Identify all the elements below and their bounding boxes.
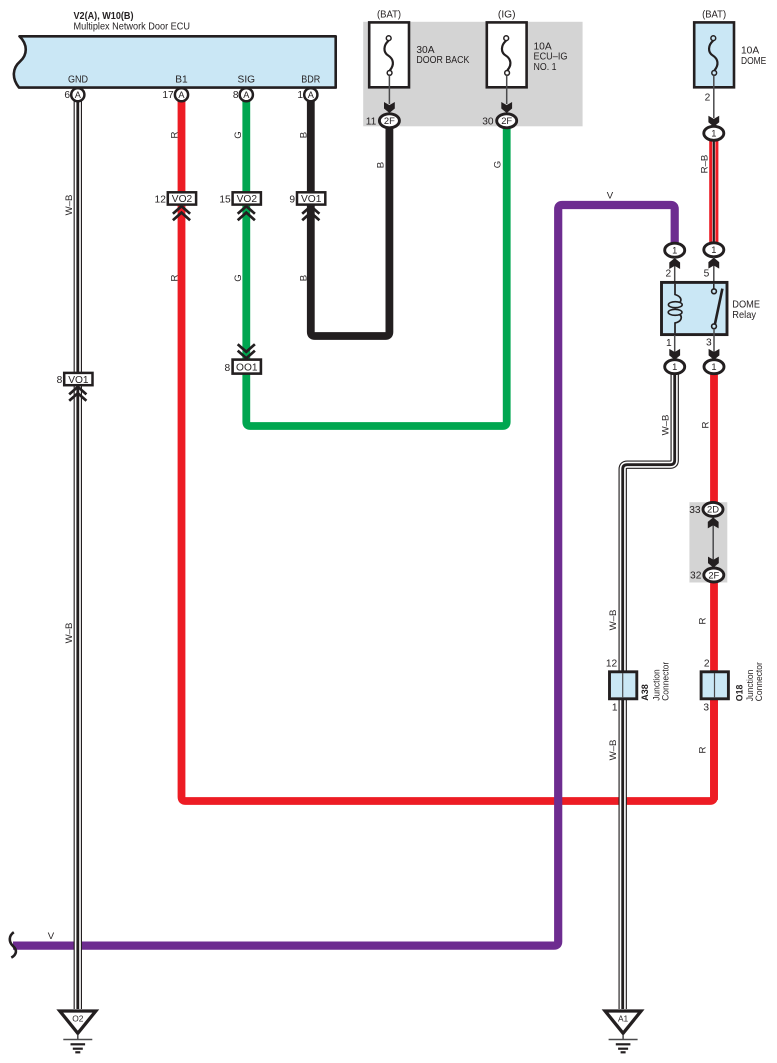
junction connector O18 box bbox=[701, 658, 728, 713]
svg-text:6: 6 bbox=[64, 90, 70, 101]
connector 1 ellipse above relay pin 2 (purple) bbox=[665, 243, 685, 257]
wire R relay pin 3 down through 2D/2F and O18 junction bbox=[710, 370, 718, 800]
wire break symbol at left end of V wire bbox=[10, 932, 16, 957]
svg-text:A: A bbox=[243, 90, 250, 100]
svg-text:11: 11 bbox=[366, 116, 377, 127]
svg-text:W–B: W–B bbox=[64, 195, 75, 216]
svg-text:DOME: DOME bbox=[741, 56, 766, 67]
svg-text:5: 5 bbox=[704, 268, 710, 279]
thin lead relay pin 1 with down arrow bbox=[666, 335, 680, 360]
svg-text:R–B: R–B bbox=[700, 155, 711, 174]
relay switch bbox=[712, 284, 723, 329]
svg-text:B: B bbox=[298, 275, 309, 281]
svg-text:W–B: W–B bbox=[608, 610, 619, 631]
svg-text:W–B: W–B bbox=[661, 415, 672, 436]
svg-text:G: G bbox=[233, 131, 244, 138]
connector 1 ellipse below dome fuse bbox=[704, 126, 724, 140]
connector 11 2F ellipse bbox=[366, 114, 400, 128]
svg-text:(BAT): (BAT) bbox=[702, 10, 726, 21]
svg-text:12: 12 bbox=[606, 658, 618, 669]
ECU pin 8 circle A bbox=[233, 88, 253, 101]
svg-text:1: 1 bbox=[297, 90, 303, 101]
svg-text:2: 2 bbox=[705, 93, 711, 104]
thin lead relay pin 5 with up arrow bbox=[704, 257, 720, 290]
svg-text:9: 9 bbox=[289, 194, 295, 205]
gray block around 2D 2F connectors bbox=[689, 502, 727, 582]
svg-text:1: 1 bbox=[711, 245, 716, 255]
wire G from ECU SIG pin 8 down, right, up to fuse ECU-IG connector 30 bbox=[246, 98, 506, 426]
connector 15 VO2 on G wire bbox=[219, 192, 261, 220]
svg-text:W–B: W–B bbox=[64, 623, 75, 644]
svg-text:8: 8 bbox=[57, 375, 63, 386]
svg-text:A: A bbox=[308, 90, 315, 100]
junction connector O18 rotated name bbox=[734, 661, 765, 701]
connector 8 OO1 on G wire bbox=[225, 344, 261, 374]
svg-text:O18: O18 bbox=[734, 684, 745, 701]
svg-text:W–B: W–B bbox=[608, 740, 619, 761]
ECU box Multiplex Network Door ECU bbox=[14, 36, 336, 87]
svg-text:1: 1 bbox=[666, 338, 672, 349]
svg-text:Relay: Relay bbox=[732, 310, 757, 321]
connector 30 2F ellipse bbox=[482, 114, 516, 128]
svg-text:G: G bbox=[233, 274, 244, 281]
connector 1 ellipse above relay pin 5 (R-B) bbox=[704, 243, 724, 257]
svg-text:2F: 2F bbox=[384, 115, 395, 126]
svg-text:V2(A), W10(B): V2(A), W10(B) bbox=[74, 11, 134, 22]
svg-text:(IG): (IG) bbox=[498, 10, 516, 21]
relay coil bbox=[668, 284, 682, 333]
ground O2 bbox=[60, 1011, 96, 1052]
svg-text:A38: A38 bbox=[640, 684, 651, 701]
DOME Relay box bbox=[662, 282, 728, 334]
wire R-B from dome fuse connector down to relay pin 5 connector bbox=[709, 137, 718, 246]
svg-text:GND: GND bbox=[68, 74, 88, 85]
wire W-B from relay pin 1 jogging left down to ground A1 bbox=[623, 370, 675, 1009]
svg-text:15: 15 bbox=[219, 194, 231, 205]
svg-text:17: 17 bbox=[162, 90, 174, 101]
fuse 10A DOME box bbox=[694, 22, 734, 87]
wire W-B from ECU GND pin 6 down to ground O2 bbox=[74, 98, 82, 1009]
svg-text:2: 2 bbox=[666, 269, 672, 280]
svg-text:1: 1 bbox=[612, 703, 618, 714]
connector 32 2F ellipse bbox=[690, 568, 724, 582]
svg-text:VO2: VO2 bbox=[237, 194, 258, 205]
svg-text:32: 32 bbox=[690, 571, 702, 582]
svg-text:OO1: OO1 bbox=[236, 363, 258, 374]
thin lead from fuse 30A to connector 2F bbox=[388, 75, 390, 104]
svg-text:NO. 1: NO. 1 bbox=[534, 62, 557, 73]
svg-text:R: R bbox=[170, 131, 181, 138]
ECU pin 17 circle A bbox=[162, 88, 188, 101]
connector 8 VO1 on W-B wire bbox=[57, 373, 93, 401]
svg-text:33: 33 bbox=[689, 505, 701, 516]
svg-text:(BAT): (BAT) bbox=[377, 10, 401, 21]
svg-text:VO1: VO1 bbox=[68, 375, 89, 386]
svg-text:3: 3 bbox=[706, 338, 712, 349]
svg-text:R: R bbox=[700, 421, 711, 428]
svg-text:1: 1 bbox=[672, 362, 677, 372]
connector 1 ellipse below relay pin 3 bbox=[704, 360, 724, 374]
wire V purple from left break to dome relay pin 2 bbox=[13, 205, 675, 946]
svg-text:1: 1 bbox=[711, 129, 716, 139]
svg-text:R: R bbox=[697, 746, 708, 753]
fuse 30A DOOR BACK box bbox=[369, 22, 409, 87]
svg-text:12: 12 bbox=[155, 194, 167, 205]
svg-text:2D: 2D bbox=[707, 504, 719, 515]
svg-text:VO1: VO1 bbox=[301, 194, 322, 205]
connector 9 VO1 on B wire bbox=[289, 192, 325, 220]
svg-text:O2: O2 bbox=[72, 1014, 84, 1024]
svg-text:B1: B1 bbox=[175, 74, 188, 85]
svg-text:A: A bbox=[75, 90, 82, 100]
svg-text:DOOR BACK: DOOR BACK bbox=[416, 55, 469, 66]
svg-text:VO2: VO2 bbox=[172, 194, 193, 205]
svg-text:Multiplex Network Door ECU: Multiplex Network Door ECU bbox=[74, 21, 191, 32]
svg-text:8: 8 bbox=[233, 90, 239, 101]
svg-text:A1: A1 bbox=[618, 1014, 629, 1024]
ECU pin 1 circle A bbox=[297, 88, 317, 101]
svg-text:SIG: SIG bbox=[238, 74, 256, 85]
svg-text:V: V bbox=[48, 931, 55, 942]
connector 12 VO2 on R wire bbox=[155, 192, 197, 220]
svg-text:2: 2 bbox=[704, 658, 710, 669]
connector 33 2D ellipse bbox=[689, 502, 723, 516]
junction connector A38 rotated name bbox=[640, 661, 671, 701]
wire B from ECU BDR pin 1 down, right, up to fuse DOOR BACK connector 11 bbox=[311, 98, 390, 336]
top gray fuse block background bbox=[363, 22, 582, 127]
svg-text:1: 1 bbox=[711, 362, 716, 372]
fuse 10A ECU-IG NO.1 box bbox=[487, 22, 527, 87]
thin lead from fuse 10A to connector 2F bbox=[506, 75, 508, 104]
junction connector A38 box bbox=[606, 658, 637, 713]
svg-text:Connector: Connector bbox=[660, 661, 671, 701]
svg-text:30: 30 bbox=[482, 116, 494, 127]
ground A1 bbox=[605, 1011, 641, 1052]
svg-text:BDR: BDR bbox=[301, 74, 320, 85]
thin lead from fuse DOME down bbox=[713, 75, 715, 118]
svg-text:8: 8 bbox=[225, 363, 231, 374]
svg-text:B: B bbox=[375, 162, 386, 168]
svg-text:2F: 2F bbox=[501, 115, 512, 126]
svg-text:3: 3 bbox=[703, 703, 709, 714]
ECU pin 6 circle A bbox=[64, 88, 84, 101]
connector 1 ellipse below relay pin 1 bbox=[665, 360, 685, 374]
arrow into connector 11 2F bbox=[384, 102, 395, 113]
svg-text:2F: 2F bbox=[708, 569, 719, 580]
thin link between 2D and 2F with arrows bbox=[708, 517, 719, 568]
svg-text:A: A bbox=[178, 90, 185, 100]
svg-text:1: 1 bbox=[672, 246, 677, 256]
svg-text:B: B bbox=[298, 132, 309, 138]
wire R from ECU B1 pin 17 down, right along bottom to x714 bbox=[182, 98, 715, 801]
thin lead relay pin 2 with up arrow bbox=[666, 258, 681, 293]
thin lead relay pin 3 with down arrow bbox=[706, 329, 719, 360]
arrow into connector 1 below dome fuse bbox=[708, 116, 719, 127]
svg-text:R: R bbox=[697, 617, 708, 624]
svg-text:G: G bbox=[492, 161, 503, 168]
svg-text:Connector: Connector bbox=[754, 661, 765, 701]
arrow into connector 30 2F bbox=[501, 102, 512, 113]
svg-text:V: V bbox=[607, 191, 614, 202]
svg-text:R: R bbox=[170, 274, 181, 281]
